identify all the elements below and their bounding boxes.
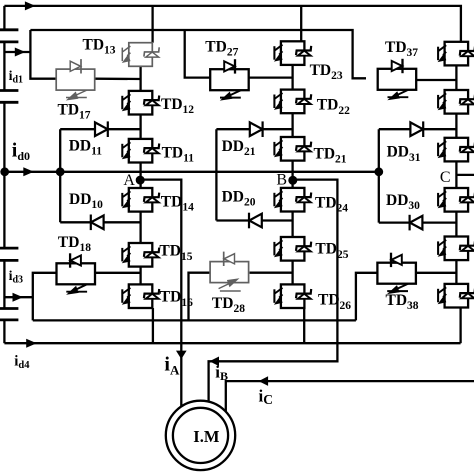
- wire leg1 stack seg4: [139, 212, 141, 243]
- wire neutral bus i_d0: [4, 171, 378, 173]
- wire leg1 stack seg1: [139, 66, 141, 91]
- wire i_d1 tap: [4, 51, 30, 53]
- wire left rail seg2: [3, 42, 5, 91]
- transistor TD25: [274, 237, 311, 261]
- wire phase B wire: [209, 180, 338, 402]
- wire leg3 stack seg1: [455, 65, 457, 90]
- transistor TD28: [210, 252, 249, 291]
- wire leg2 stack seg3: [291, 161, 293, 188]
- wire DD2x vertical: [215, 129, 217, 220]
- svg-text:A: A: [123, 172, 135, 189]
- wire TD37 right: [416, 79, 456, 81]
- wire left rail seg3: [3, 102, 5, 248]
- transistor TD12: [122, 91, 159, 115]
- transistor TD37: [378, 59, 417, 100]
- svg-text:B: B: [276, 172, 287, 189]
- wire TD18 right: [95, 272, 141, 274]
- wire leg2 stack seg5: [291, 261, 293, 285]
- wire phase C wire: [226, 381, 474, 411]
- wire TD28 left: [189, 273, 211, 321]
- diode DD11: [95, 121, 108, 137]
- transistor TD15: [122, 243, 159, 267]
- arrow top bus current: [25, 1, 36, 10]
- wire leg3 stack seg3: [455, 161, 457, 188]
- arrow i_B: [210, 357, 220, 367]
- wire TD27 left drop: [185, 30, 211, 78]
- wire DD20 wire: [216, 219, 292, 221]
- svg-text:I.M: I.M: [193, 427, 220, 446]
- wire TD17 right: [95, 78, 141, 81]
- wire DD1x vertical: [59, 129, 61, 222]
- wire leg2 top feed: [300, 6, 302, 41]
- arrow i_d4: [26, 339, 37, 348]
- transistor TD22: [274, 90, 311, 114]
- wire TD28 right: [250, 272, 293, 274]
- wire DD21 wire: [216, 128, 292, 130]
- wire TD17 left drop: [30, 30, 56, 79]
- transistor TD23: [274, 41, 311, 65]
- capacitor C1: [0, 30, 18, 42]
- wire leg1 bottom: [152, 308, 154, 343]
- wire leg3 bottom: [459, 308, 461, 344]
- diode DD21: [250, 121, 263, 137]
- svg-text:C: C: [440, 169, 451, 186]
- wire leg3 stack seg2: [455, 114, 457, 138]
- diode DD10: [91, 215, 104, 231]
- transistor TD33: [438, 42, 474, 66]
- wire TD27 right: [249, 76, 293, 78]
- transistor TD26: [274, 284, 311, 308]
- diode DD30: [410, 215, 423, 231]
- arrow i_d1: [15, 48, 25, 57]
- arrow i_d0: [23, 167, 34, 176]
- transistor TD34: [438, 188, 474, 212]
- transistor TD36: [438, 284, 474, 308]
- wire DD3x vertical: [378, 129, 380, 222]
- wire left rail seg4: [3, 260, 5, 308]
- wire TD18 left: [33, 273, 57, 321]
- transistor TD27: [210, 59, 249, 100]
- node A: [136, 176, 145, 185]
- transistor TD32: [438, 90, 474, 114]
- transistor TD16: [122, 284, 159, 308]
- transistor TD31: [438, 138, 474, 162]
- wire leg1 stack seg3: [139, 163, 141, 189]
- wire second bus: [30, 30, 366, 78]
- transistor TD17: [56, 59, 94, 100]
- transistor TD38: [377, 253, 416, 294]
- diode DD31: [410, 121, 423, 137]
- transistor TD11: [122, 139, 159, 163]
- diode DD20: [249, 213, 262, 229]
- transistor TD13: [122, 43, 159, 67]
- wire DD30 wire: [379, 221, 457, 223]
- arrow i_C: [259, 376, 269, 386]
- wire left rail seg5: [3, 320, 5, 343]
- wire leg1 stack seg5: [139, 267, 141, 285]
- motor I.M outer circle: [166, 401, 235, 470]
- wire phase A wire: [141, 180, 182, 407]
- transistor TD24: [274, 188, 311, 212]
- wire leg1 stack seg2: [139, 115, 141, 139]
- node B: [288, 176, 297, 185]
- wire TD38 right: [417, 272, 456, 274]
- transistor TD35: [438, 237, 474, 261]
- wire leg1 top feed: [151, 6, 153, 43]
- node DD3x-neutral junction: [374, 167, 383, 176]
- wire leg2 stack seg4: [291, 212, 293, 238]
- transistor TD18: [57, 253, 96, 294]
- wire i_d4 bus: [4, 342, 460, 344]
- wire leg3 stack seg5: [455, 260, 457, 284]
- motor I.M inner circle: [173, 408, 228, 463]
- wire aux bottom bus: [33, 319, 356, 321]
- arrow i_d3: [13, 293, 24, 302]
- wire left rail seg1: [3, 6, 5, 30]
- capacitor C3: [0, 248, 18, 260]
- wire DD11 wire: [60, 128, 140, 130]
- wire DD31 wire: [379, 128, 457, 130]
- wire leg3 stack seg4: [455, 212, 457, 237]
- wire phase C stub: [456, 174, 474, 176]
- wire i_d3 tap: [4, 296, 32, 298]
- wire leg2 stack seg2: [291, 113, 293, 137]
- node rail-neutral junction: [0, 167, 9, 176]
- arrow i_A: [176, 351, 187, 360]
- wire TD38 left: [356, 273, 378, 321]
- wire leg2 bottom: [303, 308, 305, 343]
- capacitor C4: [0, 309, 18, 320]
- transistor TD21: [274, 137, 311, 161]
- capacitor C2: [0, 91, 18, 103]
- wire DD10 wire: [60, 221, 140, 223]
- wire top bus: [4, 6, 461, 42]
- node DD1x-neutral junction: [56, 167, 65, 176]
- transistor TD14: [122, 188, 159, 212]
- wire leg2 stack seg1: [291, 65, 293, 90]
